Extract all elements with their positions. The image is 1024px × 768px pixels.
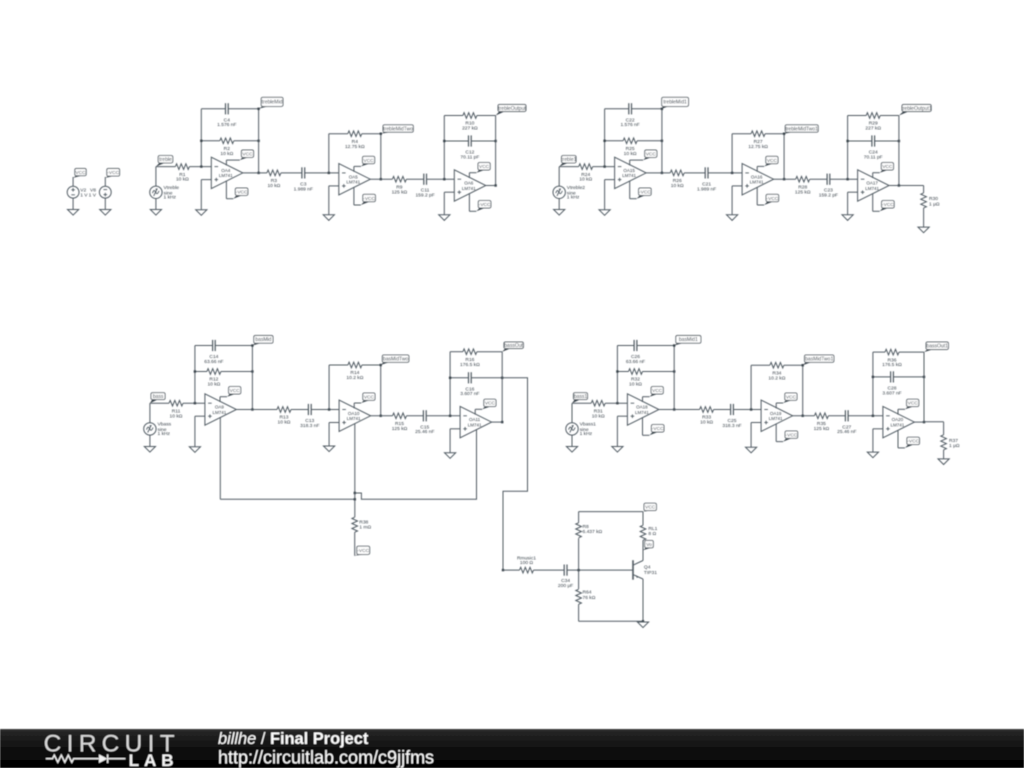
VCC flag <box>354 393 375 408</box>
svg-text:63.66 nF: 63.66 nF <box>626 359 645 365</box>
voltage source Vbass1 (sine 1 kHz) <box>566 422 596 438</box>
resistor R36 176.5 kΩ <box>882 349 902 368</box>
wire <box>873 376 924 378</box>
svg-text:VCC: VCC <box>485 401 496 407</box>
svg-text:LM741: LM741 <box>750 180 764 185</box>
svg-text:-VCC: -VCC <box>479 202 491 208</box>
svg-text:10 kΩ: 10 kΩ <box>267 183 280 189</box>
resistor R38 1 mΩ <box>352 517 372 532</box>
wire <box>714 409 731 411</box>
wire <box>534 569 565 571</box>
ground <box>938 459 949 465</box>
-VCC flag <box>898 430 920 448</box>
node <box>673 344 675 410</box>
VCC flag <box>776 393 797 408</box>
wire <box>873 429 883 452</box>
svg-text:R64: R64 <box>583 590 592 596</box>
node <box>872 415 874 417</box>
svg-text:Vtreble: Vtreble <box>164 185 180 191</box>
svg-text:159.2 pF: 159.2 pF <box>819 193 838 199</box>
svg-text:1.989 nF: 1.989 nF <box>294 186 313 192</box>
wire <box>492 421 503 423</box>
wire <box>72 198 74 209</box>
net flag trebleMidTwo1 <box>784 125 818 134</box>
op-amp OA20 LM741 <box>883 406 915 437</box>
wire <box>830 178 858 180</box>
wire <box>774 178 796 180</box>
wire <box>943 450 945 459</box>
node <box>898 184 900 186</box>
resistor R26 10 kΩ <box>670 170 684 189</box>
CircuitLab logo: CIRCUIT <box>44 730 180 757</box>
VCC flag <box>630 150 657 165</box>
resistor R32 10 kΩ <box>629 369 643 388</box>
wire <box>559 167 579 187</box>
wire <box>848 140 899 142</box>
capacitor C15 25.46 nF <box>415 410 434 435</box>
resistor R24 10 kΩ <box>579 164 593 183</box>
net flag trebleMid <box>259 97 283 109</box>
node <box>846 178 848 180</box>
svg-text:RL1: RL1 <box>648 526 657 532</box>
wire <box>444 140 495 142</box>
resistor R8 6.437 kΩ <box>576 523 603 538</box>
svg-text:200 μF: 200 μF <box>558 583 573 589</box>
ground <box>918 227 929 233</box>
wire <box>329 365 381 416</box>
svg-text:6.437 kΩ: 6.437 kΩ <box>583 529 603 535</box>
svg-text:125 kΩ: 125 kΩ <box>392 426 408 432</box>
resistor Rmusic1 100 Ω <box>517 555 536 573</box>
capacitor C26 63.66 nF <box>626 340 645 365</box>
node <box>872 376 926 378</box>
svg-text:125 kΩ: 125 kΩ <box>795 189 811 195</box>
node <box>328 172 330 174</box>
wire <box>673 346 675 410</box>
ground <box>439 215 450 221</box>
wire <box>155 199 157 210</box>
resistor R28 125 kΩ <box>795 176 811 195</box>
VCC flag <box>354 156 375 171</box>
svg-text:-VCC: -VCC <box>363 196 375 202</box>
wire <box>195 346 253 404</box>
svg-text:12.75 kΩ: 12.75 kΩ <box>345 144 365 150</box>
wire <box>189 166 211 168</box>
wire <box>578 570 580 589</box>
svg-text:bassOut: bassOut <box>504 343 523 349</box>
op-amp OA9 LM741 <box>205 394 237 425</box>
VCC flag <box>469 163 490 178</box>
node <box>731 172 733 174</box>
VCC flag <box>226 150 253 165</box>
ground <box>727 215 738 221</box>
svg-text:basMidTwo1: basMidTwo1 <box>805 356 833 362</box>
op-amp OA6 LM741 <box>454 170 486 201</box>
svg-text:http://circuitlab.com/c9jjfms: http://circuitlab.com/c9jjfms <box>218 747 434 767</box>
svg-text:basMid1: basMid1 <box>679 337 698 343</box>
wire <box>828 415 845 417</box>
svg-text:R8: R8 <box>583 524 590 530</box>
wire <box>708 172 742 174</box>
wire <box>329 186 339 215</box>
wire <box>593 166 615 168</box>
ground <box>445 453 456 459</box>
capacitor C12 70.11 pF <box>460 135 479 160</box>
svg-text:trebleMid1: trebleMid1 <box>663 100 687 106</box>
wire <box>236 409 277 411</box>
node <box>328 408 330 410</box>
svg-text:LM741: LM741 <box>346 180 360 185</box>
capacitor C21 1.989 nF <box>697 167 716 192</box>
svg-text:LM741: LM741 <box>462 186 476 191</box>
svg-text:VCC: VCC <box>230 388 241 394</box>
footer url <box>218 747 434 767</box>
resistor R35 125 kΩ <box>814 413 830 432</box>
wire <box>793 415 815 417</box>
svg-text:1.576 nF: 1.576 nF <box>620 122 639 128</box>
resistor R10 227 kΩ <box>462 113 478 132</box>
wire <box>156 167 176 187</box>
VCC flag <box>643 387 664 402</box>
capacitor C16 3.607 nF <box>460 372 479 397</box>
ground <box>68 210 79 216</box>
op-amp OA19 LM741 <box>761 400 793 431</box>
wire <box>450 352 502 416</box>
wire <box>406 178 423 180</box>
voltage source Vtreble (sine 1 kHz) <box>150 185 180 201</box>
wire <box>578 538 580 570</box>
svg-text:Vtreble2: Vtreble2 <box>567 185 585 191</box>
node <box>200 140 260 142</box>
svg-text:227 kΩ: 227 kΩ <box>462 126 478 132</box>
svg-text:1 kHz: 1 kHz <box>580 431 593 437</box>
svg-text:VCC: VCC <box>242 152 253 158</box>
svg-text:176.5 kΩ: 176.5 kΩ <box>882 362 902 368</box>
node <box>750 408 752 410</box>
op-amp OA17 LM741 <box>858 170 890 201</box>
wire <box>201 180 211 210</box>
svg-text:LM741: LM741 <box>865 186 879 191</box>
capacitor C3 1.989 nF <box>294 167 313 192</box>
svg-text:VCC: VCC <box>479 164 490 170</box>
svg-text:basMidTwo: basMidTwo <box>383 356 409 362</box>
net flag basMidTwo <box>381 355 409 365</box>
net flag bass1 <box>572 393 588 404</box>
-VCC flag <box>469 193 491 211</box>
resistor RL1 8 Ω <box>640 525 657 540</box>
ground <box>189 447 200 453</box>
svg-text:Vbass: Vbass <box>158 422 172 428</box>
op-amp OA10 LM741 <box>339 400 371 431</box>
svg-text:-VCC: -VCC <box>236 190 248 196</box>
svg-text:LM741: LM741 <box>635 410 649 415</box>
-VCC flag <box>643 417 665 435</box>
wire <box>311 409 339 411</box>
wire <box>444 116 495 180</box>
wire <box>371 415 393 417</box>
resistor R11 10 kΩ <box>169 400 183 419</box>
svg-text:100 Ω: 100 Ω <box>520 560 534 566</box>
svg-text:1 kHz: 1 kHz <box>164 195 177 201</box>
wire <box>243 172 267 174</box>
wire <box>354 532 356 556</box>
wire <box>219 417 221 499</box>
node <box>354 498 356 500</box>
node <box>603 165 605 167</box>
-VCC flag <box>757 187 779 205</box>
wire <box>733 409 761 411</box>
wire <box>889 185 899 187</box>
ground <box>637 622 648 628</box>
svg-text:1 μΩ: 1 μΩ <box>929 201 940 207</box>
svg-text:-VCC: -VCC <box>882 202 894 208</box>
ground <box>612 447 623 453</box>
node <box>783 133 785 181</box>
ground <box>150 210 161 216</box>
wire <box>355 430 477 500</box>
svg-text:318.3 nF: 318.3 nF <box>722 423 741 429</box>
svg-text:-VCC: -VCC <box>652 426 664 432</box>
svg-text:1 mΩ: 1 mΩ <box>359 525 371 531</box>
wire <box>291 409 308 411</box>
wire <box>450 429 460 453</box>
svg-text:10 kΩ: 10 kΩ <box>671 183 684 189</box>
ground <box>599 210 610 216</box>
wire <box>605 109 662 167</box>
wire <box>329 423 339 447</box>
svg-text:3.607 nF: 3.607 nF <box>460 391 479 397</box>
svg-text:70.11 pF: 70.11 pF <box>460 154 479 160</box>
-VCC flag <box>226 181 248 199</box>
svg-text:10 kΩ: 10 kΩ <box>278 420 291 426</box>
ground <box>746 447 757 453</box>
wire <box>354 424 356 494</box>
node <box>449 377 504 379</box>
svg-text:Vbass1: Vbass1 <box>580 422 597 428</box>
svg-text:10.2 kΩ: 10.2 kΩ <box>346 375 363 381</box>
svg-text:LM741: LM741 <box>213 410 227 415</box>
capacitor C27 25.46 nF <box>837 410 856 435</box>
footer bar <box>0 729 1024 768</box>
-VCC flag <box>630 181 652 199</box>
wire <box>923 352 925 422</box>
op-amp OA18 LM741 <box>627 394 659 425</box>
svg-text:VCC: VCC <box>645 505 656 511</box>
wire <box>305 172 339 174</box>
wire <box>898 116 900 186</box>
capacitor C25 318.3 nF <box>722 404 741 429</box>
resistor R12 10 kΩ <box>207 369 221 388</box>
net flag treble <box>156 156 173 167</box>
wire <box>732 134 784 180</box>
svg-text:VCC: VCC <box>882 164 893 170</box>
resistor R1 10 kΩ <box>175 164 189 183</box>
node <box>449 415 451 417</box>
resistor R3 10 kΩ <box>267 170 281 189</box>
net flag bass <box>150 393 165 404</box>
wire <box>495 116 497 186</box>
Vo flag <box>643 540 653 550</box>
svg-text:VCC: VCC <box>786 394 797 400</box>
svg-text:3.607 nF: 3.607 nF <box>882 390 901 396</box>
capacitor C4 1.576 nF <box>217 103 236 128</box>
capacitor C34 200 μF <box>558 565 573 589</box>
VCC flag <box>475 399 496 414</box>
svg-text:R38: R38 <box>359 519 368 525</box>
resistor R4 12.75 kΩ <box>345 131 365 150</box>
svg-text:1 V: 1 V <box>89 192 97 198</box>
resistor R25 10 kΩ <box>623 138 637 157</box>
resistor R13 10 kΩ <box>277 407 291 426</box>
node <box>616 370 675 372</box>
op-amp OA4 LM741 <box>211 157 243 188</box>
-VCC flag <box>355 546 370 556</box>
wire <box>571 435 573 446</box>
wire <box>503 569 520 571</box>
wire <box>684 172 705 174</box>
ground <box>323 215 334 221</box>
ground <box>554 210 565 216</box>
net flag basMid1 <box>674 336 701 346</box>
VCC flag <box>643 503 656 511</box>
svg-text:10.2 kΩ: 10.2 kΩ <box>768 375 785 381</box>
svg-text:10 kΩ: 10 kΩ <box>592 413 605 419</box>
svg-text:1 kHz: 1 kHz <box>158 431 171 437</box>
wire <box>567 569 633 571</box>
svg-text:227 kΩ: 227 kΩ <box>865 126 881 132</box>
net flag trebleMid1 <box>662 97 689 109</box>
svg-text:-VCC: -VCC <box>357 548 369 554</box>
svg-text:LAB: LAB <box>129 751 179 768</box>
svg-text:bass: bass <box>153 394 164 400</box>
node <box>923 421 925 423</box>
svg-text:12.75 kΩ: 12.75 kΩ <box>748 144 768 150</box>
VCC flag <box>73 169 86 178</box>
wire <box>848 116 899 180</box>
VCC flag <box>898 399 919 414</box>
resistor R64 76 kΩ <box>576 589 596 604</box>
svg-text:-VCC: -VCC <box>767 196 779 202</box>
resistor R9 125 kΩ <box>392 176 408 195</box>
svg-text:10 kΩ: 10 kΩ <box>624 151 637 157</box>
footer author/title <box>218 730 369 748</box>
node <box>502 569 504 571</box>
svg-text:trebleMidTwo: trebleMidTwo <box>383 126 413 132</box>
node <box>494 184 496 186</box>
net flag basMidTwo1 <box>803 355 834 365</box>
node <box>380 133 382 181</box>
resistor R15 125 kΩ <box>392 413 408 432</box>
resistor R37 1 μΩ <box>941 435 960 450</box>
voltage source Vtreble2 (sine 1 kHz) <box>553 185 585 201</box>
wire <box>642 540 644 560</box>
svg-text:125 kΩ: 125 kΩ <box>814 426 830 432</box>
svg-text:10 kΩ: 10 kΩ <box>170 413 183 419</box>
wire <box>605 180 615 210</box>
svg-text:25.46 nF: 25.46 nF <box>837 429 856 435</box>
-VCC flag <box>776 424 798 442</box>
wire <box>450 377 502 379</box>
wire <box>149 435 151 446</box>
wire <box>150 403 169 423</box>
net flag trebleOutput <box>496 105 527 116</box>
node <box>616 402 618 404</box>
svg-text:LM741: LM741 <box>468 422 482 427</box>
svg-text:10 kΩ: 10 kΩ <box>629 382 642 388</box>
CircuitLab logo: resistor symbol <box>46 755 99 762</box>
svg-text:76 kΩ: 76 kΩ <box>583 595 596 601</box>
wire <box>579 604 643 621</box>
capacitor C11 159.2 pF <box>415 174 434 199</box>
wire <box>899 186 924 193</box>
ground <box>566 447 577 453</box>
svg-text:1.989 nF: 1.989 nF <box>697 186 716 192</box>
net flag basMid <box>252 336 273 346</box>
voltage source Vbass (sine 1 kHz) <box>144 422 172 438</box>
wire <box>329 134 381 180</box>
CircuitLab logo: diode symbol <box>99 754 126 763</box>
node <box>257 108 259 174</box>
svg-text:bassOut1: bassOut1 <box>926 344 948 350</box>
wire <box>605 402 627 404</box>
svg-text:Vo: Vo <box>646 542 652 548</box>
wire <box>605 140 662 142</box>
svg-text:VCC: VCC <box>364 394 375 400</box>
wire <box>104 198 106 209</box>
svg-text:-VCC: -VCC <box>786 432 798 438</box>
svg-text:basMid: basMid <box>255 337 271 343</box>
svg-text:VCC: VCC <box>75 170 86 176</box>
op-amp OA5 LM741 <box>339 164 371 195</box>
wire <box>751 365 803 416</box>
svg-text:LM741: LM741 <box>891 422 905 427</box>
ground <box>842 215 853 221</box>
wire <box>183 402 205 404</box>
wire <box>659 409 700 411</box>
svg-text:10 kΩ: 10 kΩ <box>579 177 592 183</box>
ground <box>867 452 878 458</box>
wire <box>201 140 258 142</box>
wire <box>848 192 858 215</box>
wire <box>661 109 663 173</box>
capacitor C22 1.576 nF <box>620 103 639 128</box>
svg-text:10 kΩ: 10 kΩ <box>176 177 189 183</box>
wire <box>617 346 674 404</box>
wire <box>923 208 925 227</box>
wire <box>354 493 356 517</box>
svg-text:LM741: LM741 <box>347 416 361 421</box>
wire <box>914 421 924 423</box>
svg-text:bass1: bass1 <box>574 394 588 400</box>
svg-text:318.3 nF: 318.3 nF <box>300 423 319 429</box>
node <box>642 620 644 622</box>
wire <box>104 177 106 186</box>
wire <box>502 378 527 570</box>
op-amp OA11 LM741 <box>460 406 492 437</box>
ground <box>100 210 111 216</box>
wire <box>195 371 253 373</box>
wire <box>617 371 674 373</box>
op-amp OA15 LM741 <box>615 157 647 188</box>
wire <box>444 192 454 215</box>
svg-text:R30: R30 <box>929 196 938 202</box>
svg-text:8 Ω: 8 Ω <box>648 531 656 537</box>
net flag bassOut <box>502 342 523 352</box>
wire <box>251 346 253 410</box>
svg-text:25.46 nF: 25.46 nF <box>415 429 434 435</box>
node <box>194 402 196 404</box>
wire <box>873 352 924 416</box>
